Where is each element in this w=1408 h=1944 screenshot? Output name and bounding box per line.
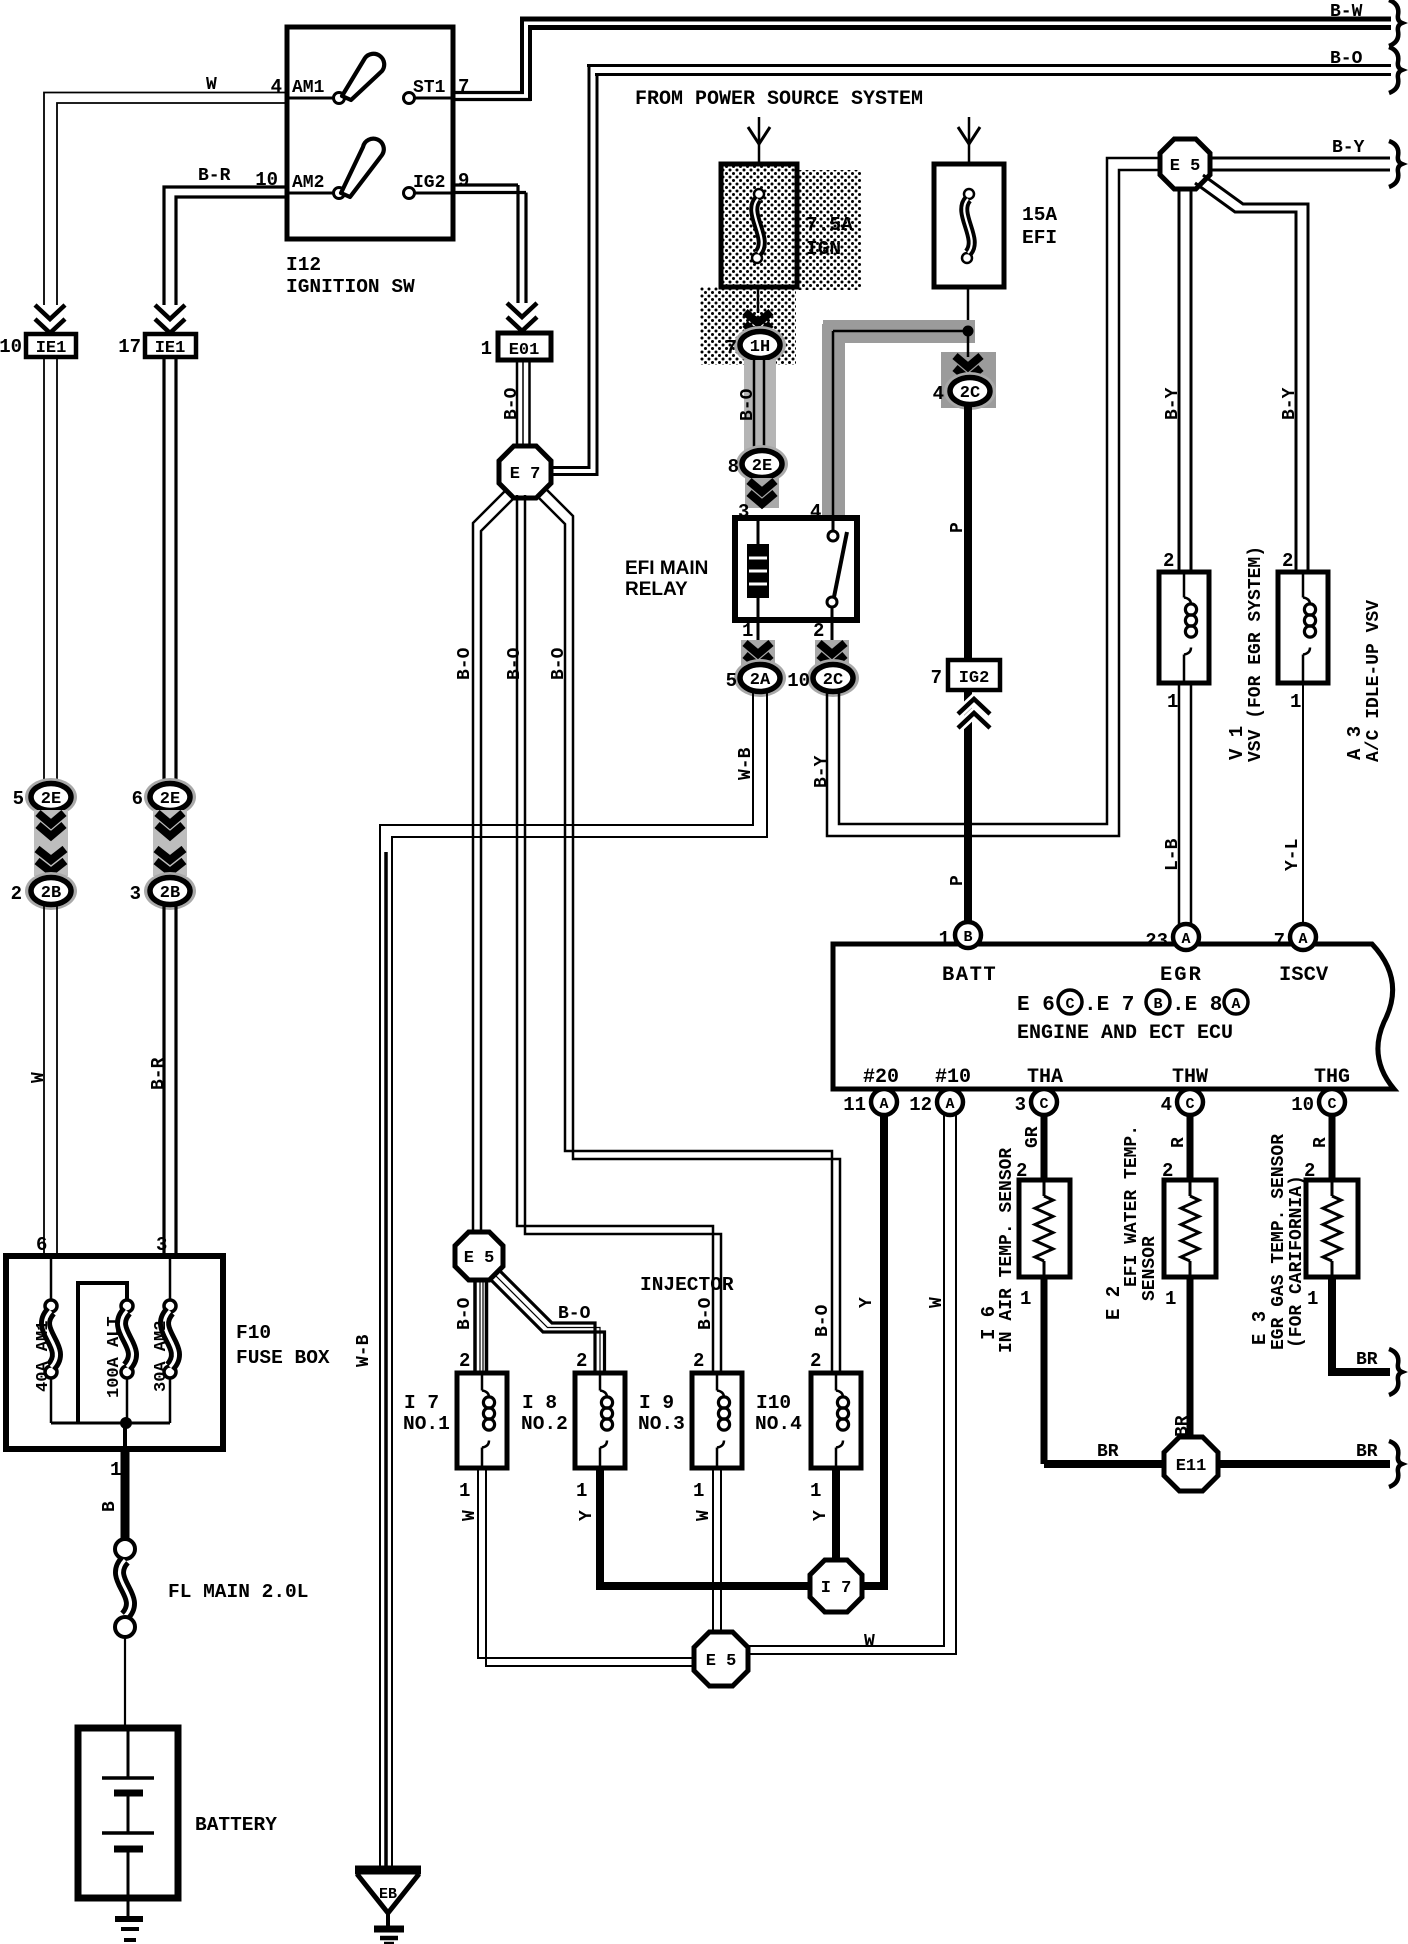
svg-text:Y: Y bbox=[857, 1297, 877, 1308]
wire fuse 15A down to junction bbox=[967, 287, 970, 331]
svg-text:1: 1 bbox=[939, 928, 950, 950]
svg-text:#20: #20 bbox=[863, 1066, 899, 1089]
connector 5 2A bbox=[734, 659, 786, 697]
svg-text:B: B bbox=[100, 1501, 120, 1512]
svg-text:B-O: B-O bbox=[696, 1297, 716, 1330]
ECU pin 23 A EGR bbox=[1173, 924, 1199, 950]
svg-text:.E 7: .E 7 bbox=[1084, 994, 1134, 1017]
injector I7 NO.1 bbox=[457, 1373, 507, 1468]
fuse 15A EFI box bbox=[934, 164, 1004, 287]
ECU pin 4 C THW bbox=[1177, 1089, 1203, 1115]
svg-text:2B: 2B bbox=[160, 884, 180, 903]
svg-text:IN AIR TEMP. SENSOR: IN AIR TEMP. SENSOR bbox=[997, 1148, 1017, 1353]
svg-text:EFI MAIN: EFI MAIN bbox=[625, 558, 708, 579]
svg-text:VSV (FOR EGR SYSTEM): VSV (FOR EGR SYSTEM) bbox=[1246, 546, 1266, 762]
svg-text:EB: EB bbox=[379, 1886, 397, 1903]
air temp sensor I6 box bbox=[1019, 1180, 1070, 1277]
svg-text:7: 7 bbox=[458, 76, 469, 98]
wire B-Y E5 to right edge bbox=[1210, 157, 1390, 160]
ECU box ENGINE AND ECT ECU bbox=[833, 944, 1394, 1089]
svg-text:(FOR CARIFORNIA): (FOR CARIFORNIA) bbox=[1287, 1175, 1307, 1348]
svg-text:A: A bbox=[879, 1096, 888, 1113]
svg-text:2: 2 bbox=[693, 1350, 704, 1372]
EFI main relay box bbox=[735, 518, 857, 620]
svg-text:1H: 1H bbox=[750, 338, 770, 357]
svg-text:10: 10 bbox=[787, 670, 810, 692]
wire B-O E7 middle down to injector No.3 bbox=[517, 495, 713, 1374]
svg-text:B-O: B-O bbox=[549, 647, 569, 680]
brace BR lower right edge bbox=[1389, 1441, 1402, 1487]
junction dot EFI fuse node bbox=[963, 326, 973, 336]
connector chevrons below IG2 bbox=[958, 699, 990, 714]
contact AM2 bbox=[287, 192, 334, 195]
svg-text:#10: #10 bbox=[935, 1066, 971, 1089]
svg-text:B-Y: B-Y bbox=[812, 755, 832, 788]
wire B-O E7 to E5 left bbox=[473, 491, 505, 1233]
svg-text:C: C bbox=[1327, 1096, 1336, 1113]
svg-text:W: W bbox=[694, 1510, 714, 1521]
svg-text:3: 3 bbox=[1015, 1094, 1026, 1116]
svg-text:I10: I10 bbox=[756, 1392, 791, 1414]
svg-text:I 8: I 8 bbox=[522, 1392, 557, 1414]
svg-text:THA: THA bbox=[1027, 1066, 1063, 1089]
svg-text:A: A bbox=[1231, 996, 1240, 1013]
wire fuse to 1H bbox=[757, 287, 760, 313]
svg-text:C: C bbox=[1065, 996, 1074, 1013]
svg-text:A/C IDLE-UP VSV: A/C IDLE-UP VSV bbox=[1364, 600, 1384, 762]
junction octagon E5 top right bbox=[1160, 139, 1210, 189]
svg-text:EGR GAS TEMP. SENSOR: EGR GAS TEMP. SENSOR bbox=[1269, 1134, 1289, 1350]
wire W E5 to ECU pin 12 bbox=[748, 1115, 944, 1646]
svg-text:B-O: B-O bbox=[505, 647, 525, 680]
ECU pin 11 A #20 bbox=[871, 1089, 897, 1115]
ECU pin 1 B BATT bbox=[955, 922, 981, 948]
fuse element 15A EFI bbox=[964, 189, 974, 199]
EGR gas temp sensor E3 box bbox=[1306, 1180, 1358, 1277]
connector arrow above 2A bbox=[741, 640, 775, 670]
wire BR E11 to right edge bbox=[1218, 1460, 1390, 1468]
svg-text:B-O: B-O bbox=[738, 388, 758, 421]
svg-text:W: W bbox=[206, 75, 217, 95]
svg-text:1: 1 bbox=[459, 1480, 470, 1502]
connector arrow above E01 bbox=[507, 303, 537, 317]
wire P thick 2C to IG2 bbox=[964, 404, 972, 660]
svg-text:9: 9 bbox=[458, 170, 469, 192]
wire B-O from E7 right to top bus bbox=[551, 466, 590, 469]
svg-text:15A: 15A bbox=[1022, 204, 1057, 226]
svg-text:NO.1: NO.1 bbox=[403, 1413, 450, 1435]
svg-text:W: W bbox=[927, 1297, 947, 1308]
svg-text:1: 1 bbox=[810, 1480, 821, 1502]
svg-text:11: 11 bbox=[843, 1094, 866, 1116]
svg-text:B-Y: B-Y bbox=[1163, 387, 1183, 420]
bus B-W top bbox=[520, 17, 1391, 22]
junction octagon E7 bbox=[499, 446, 551, 498]
svg-text:B: B bbox=[1153, 996, 1162, 1013]
bus B-O top bbox=[587, 64, 1391, 67]
svg-text:2A: 2A bbox=[750, 671, 771, 690]
connector arrow below 2E bbox=[745, 478, 779, 508]
svg-text:L-B: L-B bbox=[1163, 838, 1183, 871]
svg-text:RELAY: RELAY bbox=[625, 579, 688, 600]
relay contact bbox=[832, 519, 835, 531]
junction octagon E5 injector feed bbox=[455, 1232, 503, 1280]
svg-text:F10: F10 bbox=[236, 1322, 271, 1344]
svg-text:W: W bbox=[864, 1632, 875, 1652]
svg-text:FL MAIN 2.0L: FL MAIN 2.0L bbox=[168, 1581, 308, 1603]
svg-text:SENSOR: SENSOR bbox=[1140, 1236, 1160, 1301]
relay coil bbox=[757, 518, 760, 544]
wire W from AM1 to IE1 bbox=[44, 93, 287, 306]
svg-text:2: 2 bbox=[576, 1350, 587, 1372]
svg-text:AM1: AM1 bbox=[292, 78, 325, 98]
battery cells bbox=[127, 1730, 130, 1777]
wire B-Y E5 diagonal to VSV A3 bbox=[1203, 175, 1308, 573]
wire R ECU to EGR gas temp sensor bbox=[1329, 1115, 1336, 1181]
connector 8 2E bbox=[736, 445, 788, 483]
svg-text:2: 2 bbox=[459, 1350, 470, 1372]
wire L-B V1 to ECU EGR bbox=[1178, 683, 1181, 925]
svg-text:THW: THW bbox=[1172, 1066, 1208, 1089]
svg-text:E 3: E 3 bbox=[1249, 1311, 1271, 1345]
wire W from IE1 down to 2E bbox=[43, 357, 45, 784]
svg-text:BATTERY: BATTERY bbox=[195, 1814, 277, 1836]
svg-text:E 5: E 5 bbox=[1170, 157, 1201, 176]
wire B-R from AM2 to IE1 bbox=[164, 187, 287, 305]
junction octagon E5 ground bbox=[694, 1632, 748, 1686]
brace BR upper right edge bbox=[1389, 1349, 1402, 1395]
fuse element 7.5A IGN bbox=[754, 189, 764, 199]
svg-text:6: 6 bbox=[132, 788, 143, 810]
wire Y injector No.2 to I7 thick bbox=[600, 1468, 810, 1586]
svg-text:B-O: B-O bbox=[558, 1304, 591, 1324]
svg-text:1: 1 bbox=[576, 1480, 587, 1502]
svg-text:100A ALT: 100A ALT bbox=[105, 1316, 124, 1398]
wire P thick IG2 to ECU BATT bbox=[964, 690, 972, 922]
wire Y-L A3 to ECU ISCV bbox=[1302, 683, 1304, 924]
fusible link FL MAIN 2.0L bbox=[115, 1539, 135, 1559]
svg-text:2: 2 bbox=[1163, 550, 1174, 572]
fusible link 30A AM2 bbox=[169, 1256, 172, 1301]
wire B-O E5 to injector No.1 bbox=[473, 1279, 477, 1374]
svg-text:I 9: I 9 bbox=[639, 1392, 674, 1414]
connector arrows between 2E and 2B bbox=[34, 810, 68, 876]
wire B-Y E5 down to VSV V1 bbox=[1178, 188, 1181, 573]
svg-text:1: 1 bbox=[481, 338, 492, 360]
svg-text:5: 5 bbox=[726, 670, 737, 692]
svg-text:EGR: EGR bbox=[1160, 964, 1203, 987]
injector I9 NO.3 bbox=[692, 1373, 742, 1468]
svg-text:12: 12 bbox=[909, 1094, 932, 1116]
wire W-B from 2A to EB ground bbox=[380, 691, 753, 1868]
svg-text:R: R bbox=[1311, 1137, 1331, 1148]
connector arrow above 4 2C bbox=[955, 356, 981, 367]
wire W injector No.1 to E5 ground bbox=[478, 1468, 748, 1658]
wire B-O E7 right down to injector No.4 bbox=[537, 496, 832, 1374]
svg-text:B-W: B-W bbox=[1330, 2, 1363, 22]
battery box bbox=[78, 1728, 178, 1898]
svg-text:B-Y: B-Y bbox=[1332, 138, 1365, 158]
fusible link 40A AM1 bbox=[50, 1256, 53, 1301]
wire B-R from 2B down to fuse box pin 3 bbox=[162, 904, 165, 1256]
svg-text:17: 17 bbox=[118, 336, 141, 358]
svg-text:BATT: BATT bbox=[942, 964, 997, 987]
svg-text:IGN: IGN bbox=[806, 238, 841, 260]
contact AM1 bbox=[287, 97, 334, 100]
svg-text:Y: Y bbox=[811, 1510, 831, 1521]
brace B-Y right edge bbox=[1389, 141, 1402, 187]
svg-text:4: 4 bbox=[810, 501, 821, 523]
svg-text:IG2: IG2 bbox=[413, 173, 445, 193]
svg-text:.E 8: .E 8 bbox=[1172, 994, 1222, 1017]
svg-text:23: 23 bbox=[1145, 930, 1168, 952]
ECU pin 3 C THA bbox=[1031, 1089, 1057, 1115]
svg-text:EFI WATER TEMP.: EFI WATER TEMP. bbox=[1122, 1125, 1142, 1287]
svg-text:E 2: E 2 bbox=[1103, 1286, 1125, 1320]
ground symbol below EB bbox=[374, 1926, 404, 1933]
wire BR air temp sensor to E11 bbox=[1041, 1277, 1048, 1464]
wire B-W from ST1 to top bus bbox=[452, 91, 524, 94]
injector I8 NO.2 bbox=[575, 1373, 625, 1468]
svg-text:2B: 2B bbox=[41, 884, 61, 903]
brace B-O right edge bbox=[1389, 47, 1402, 93]
svg-text:A: A bbox=[945, 1096, 954, 1113]
wire W from 2B down to fuse box pin 6 bbox=[43, 904, 45, 1256]
svg-text:THG: THG bbox=[1314, 1066, 1350, 1089]
connector 5 2E bbox=[25, 778, 77, 816]
VSV V1 box bbox=[1159, 572, 1209, 683]
bus bar bottom of fuse box bbox=[51, 1422, 170, 1425]
svg-text:INJECTOR: INJECTOR bbox=[640, 1274, 734, 1296]
svg-text:W: W bbox=[29, 1072, 49, 1083]
connector 2 2B bbox=[25, 872, 77, 910]
svg-text:IE1: IE1 bbox=[155, 339, 186, 358]
junction connector 1 E01 bbox=[498, 333, 551, 360]
wire B-Y from 2C to E5 top right bbox=[827, 170, 1161, 836]
junction octagon E11 bbox=[1164, 1437, 1218, 1491]
svg-text:B-O: B-O bbox=[502, 387, 522, 420]
wire FL MAIN to battery bbox=[124, 1637, 126, 1730]
svg-text:1: 1 bbox=[693, 1480, 704, 1502]
junction octagon I7 bbox=[810, 1560, 862, 1612]
arrow into fuse 15A bbox=[968, 117, 971, 162]
svg-text:E01: E01 bbox=[509, 341, 540, 360]
svg-text:FROM POWER SOURCE SYSTEM: FROM POWER SOURCE SYSTEM bbox=[635, 88, 923, 111]
svg-text:8: 8 bbox=[728, 456, 739, 478]
svg-text:10: 10 bbox=[1291, 1094, 1314, 1116]
svg-text:E 5: E 5 bbox=[464, 1249, 495, 1268]
svg-text:W-B: W-B bbox=[354, 1334, 374, 1367]
svg-text:B-O: B-O bbox=[455, 1297, 475, 1330]
svg-text:ST1: ST1 bbox=[413, 78, 446, 98]
svg-text:E11: E11 bbox=[1176, 1457, 1207, 1476]
svg-text:BR: BR bbox=[1097, 1442, 1119, 1462]
svg-text:2: 2 bbox=[11, 883, 22, 905]
inner box around 100A ALT bbox=[78, 1283, 127, 1423]
svg-text:FUSE BOX: FUSE BOX bbox=[236, 1347, 330, 1369]
svg-text:1: 1 bbox=[1165, 1288, 1176, 1310]
svg-text:7: 7 bbox=[931, 667, 942, 689]
svg-text:3: 3 bbox=[130, 883, 141, 905]
svg-text:B-O: B-O bbox=[1330, 49, 1363, 69]
svg-text:2C: 2C bbox=[823, 671, 843, 690]
svg-text:NO.2: NO.2 bbox=[521, 1413, 568, 1435]
wire GR ECU to air temp sensor bbox=[1041, 1115, 1048, 1181]
svg-text:2C: 2C bbox=[960, 384, 980, 403]
svg-text:BR: BR bbox=[1356, 1442, 1378, 1462]
fusible link 100A ALT bbox=[126, 1283, 129, 1301]
svg-text:IGNITION SW: IGNITION SW bbox=[286, 276, 415, 298]
svg-text:1: 1 bbox=[1290, 691, 1301, 713]
connector 10 2C bbox=[807, 659, 859, 697]
svg-text:BR: BR bbox=[1356, 1350, 1378, 1370]
ground EB triangle bbox=[357, 1875, 419, 1912]
wire W injector No.3 to E5 ground bbox=[712, 1468, 714, 1634]
connector 4 2C bbox=[944, 372, 996, 410]
svg-text:EFI: EFI bbox=[1022, 227, 1057, 249]
wire B-R from IE1 down to 2E bbox=[162, 357, 165, 784]
svg-text:A 3: A 3 bbox=[1344, 726, 1366, 760]
svg-text:ENGINE AND ECT ECU: ENGINE AND ECT ECU bbox=[1017, 1022, 1233, 1045]
svg-text:B-R: B-R bbox=[149, 1057, 169, 1090]
wire junction to relay pin 4 gray shaded bbox=[823, 320, 975, 343]
svg-text:B: B bbox=[963, 929, 972, 946]
water temp sensor E2 box bbox=[1164, 1180, 1216, 1277]
svg-text:E 6: E 6 bbox=[1017, 994, 1055, 1017]
ECU pin 7 A ISCV bbox=[1290, 924, 1316, 950]
connector 7 1H bbox=[734, 326, 786, 364]
svg-text:1: 1 bbox=[1167, 691, 1178, 713]
injector I10 NO.4 bbox=[811, 1373, 861, 1468]
svg-text:2: 2 bbox=[1282, 550, 1293, 572]
svg-text:2E: 2E bbox=[41, 790, 61, 809]
connector arrows between 2E and 2B right bbox=[153, 810, 187, 876]
wire B thick from fuse box bbox=[121, 1447, 130, 1540]
svg-text:10: 10 bbox=[0, 336, 22, 358]
svg-text:BR: BR bbox=[1173, 1415, 1193, 1437]
svg-text:R: R bbox=[1169, 1137, 1189, 1148]
brace B-W right edge bbox=[1389, 0, 1402, 46]
svg-text:4: 4 bbox=[933, 383, 944, 405]
wire B-O from IG2 down to E01 bbox=[452, 183, 518, 186]
svg-text:E 7: E 7 bbox=[510, 465, 541, 484]
junction dot fuse box bbox=[121, 1418, 132, 1429]
contact IG2 bbox=[414, 192, 452, 195]
svg-text:7: 7 bbox=[726, 337, 737, 359]
svg-text:1: 1 bbox=[1020, 1288, 1031, 1310]
junction connector 17 IE1 bbox=[145, 334, 196, 357]
svg-text:4: 4 bbox=[1161, 1094, 1172, 1116]
svg-text:B-O: B-O bbox=[455, 647, 475, 680]
wire Y I7 to ECU pin 11 bbox=[862, 1115, 884, 1586]
svg-text:C: C bbox=[1039, 1096, 1048, 1113]
ECU pin 10 C THG bbox=[1319, 1089, 1345, 1115]
svg-text:E 5: E 5 bbox=[706, 1652, 737, 1671]
contact ST1 bbox=[414, 97, 452, 100]
svg-text:1: 1 bbox=[1307, 1288, 1318, 1310]
wire B-O E5 diagonal to injector No.2 bbox=[498, 1269, 595, 1374]
wire R ECU to water temp sensor bbox=[1187, 1115, 1194, 1181]
fuse 7.5A IGN with stipple shading bbox=[797, 170, 861, 290]
svg-text:IG2: IG2 bbox=[959, 669, 990, 688]
wire relay pin1 to 2A bbox=[757, 620, 760, 644]
ground symbol below battery bbox=[115, 1916, 143, 1922]
wire B-O from E01 to E7 bbox=[516, 360, 519, 446]
connector 6 2E bbox=[144, 778, 196, 816]
wire junction down to 2C bbox=[941, 352, 996, 408]
svg-text:C: C bbox=[1185, 1096, 1194, 1113]
connector arrow above 10 2C bbox=[815, 640, 849, 670]
svg-text:2: 2 bbox=[810, 1350, 821, 1372]
svg-text:NO.3: NO.3 bbox=[638, 1413, 685, 1435]
wire B-O 1H to 2E bbox=[744, 360, 776, 452]
svg-text:1: 1 bbox=[110, 1459, 121, 1481]
switch lever AM1 bbox=[342, 54, 384, 100]
junction connector 10 IE1 bbox=[26, 334, 76, 357]
arrow into fuse 7.5A bbox=[758, 117, 761, 162]
svg-text:I 7: I 7 bbox=[821, 1579, 852, 1598]
connector arrow above 17 IE1 bbox=[155, 305, 185, 319]
svg-text:B-R: B-R bbox=[198, 166, 231, 186]
svg-text:4: 4 bbox=[271, 76, 282, 98]
svg-text:AM2: AM2 bbox=[292, 173, 324, 193]
svg-text:P: P bbox=[948, 875, 968, 886]
svg-text:Y-L: Y-L bbox=[1283, 839, 1303, 871]
svg-text:IE1: IE1 bbox=[36, 339, 67, 358]
svg-text:GR: GR bbox=[1023, 1126, 1043, 1148]
svg-text:A: A bbox=[1181, 931, 1190, 948]
connector 3 2B bbox=[144, 872, 196, 910]
svg-text:NO.4: NO.4 bbox=[755, 1413, 802, 1435]
svg-text:7.5A: 7.5A bbox=[806, 214, 853, 236]
svg-text:5: 5 bbox=[13, 788, 24, 810]
svg-text:2E: 2E bbox=[752, 457, 772, 476]
svg-text:2E: 2E bbox=[160, 790, 180, 809]
ECU pin 12 A #10 bbox=[937, 1089, 963, 1115]
wire relay pin2 to 2C bbox=[831, 620, 834, 644]
svg-text:A: A bbox=[1298, 931, 1307, 948]
svg-text:I 7: I 7 bbox=[404, 1392, 439, 1414]
wire Y injector No.4 to I7 bbox=[832, 1468, 840, 1561]
VSV A3 box bbox=[1278, 572, 1328, 683]
svg-text:B-Y: B-Y bbox=[1280, 387, 1300, 420]
wire BR EGR gas temp sensor to right edge bbox=[1332, 1277, 1390, 1372]
connector arrow above 1H bbox=[745, 312, 771, 323]
svg-text:B-O: B-O bbox=[813, 1304, 833, 1337]
wire BR water temp sensor to E11 bbox=[1187, 1277, 1194, 1438]
svg-text:6: 6 bbox=[36, 1234, 47, 1256]
svg-text:1: 1 bbox=[742, 620, 753, 642]
connector arrow above 10 IE1 bbox=[35, 305, 65, 319]
svg-text:W-B: W-B bbox=[736, 747, 756, 780]
svg-text:I12: I12 bbox=[286, 254, 321, 276]
svg-text:30A AM2: 30A AM2 bbox=[152, 1321, 171, 1392]
switch lever AM2 bbox=[341, 139, 384, 197]
fuse box F10 outline bbox=[6, 1256, 223, 1449]
svg-text:P: P bbox=[948, 522, 968, 533]
svg-text:ISCV: ISCV bbox=[1279, 964, 1329, 987]
ignition switch I12 box bbox=[287, 27, 453, 239]
junction connector 7 IG2 bbox=[948, 660, 1000, 690]
svg-text:2: 2 bbox=[813, 620, 824, 642]
svg-text:Y: Y bbox=[577, 1510, 597, 1521]
svg-text:7: 7 bbox=[1274, 930, 1285, 952]
svg-text:3: 3 bbox=[156, 1234, 167, 1256]
svg-text:V 1: V 1 bbox=[1226, 726, 1248, 760]
